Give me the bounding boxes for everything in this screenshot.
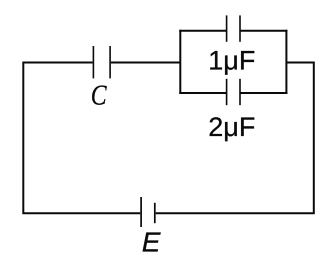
svg-text:E: E xyxy=(142,227,161,258)
svg-text:2μF: 2μF xyxy=(208,112,255,142)
svg-text:C: C xyxy=(91,80,107,112)
svg-text:1μF: 1μF xyxy=(208,46,255,76)
